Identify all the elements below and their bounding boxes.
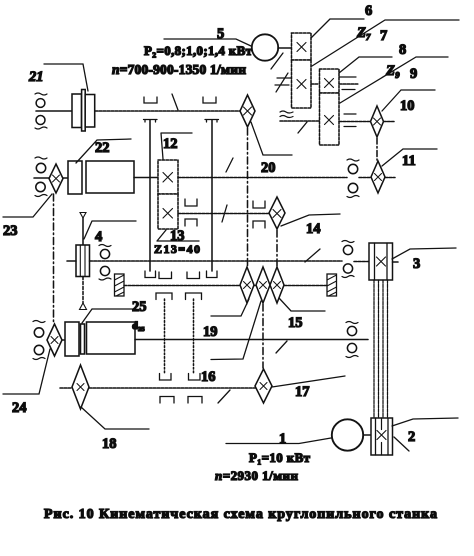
label 10 leader xyxy=(382,90,435,111)
wire right of diamond 10 xyxy=(384,121,395,123)
rail 2 vertical xyxy=(211,120,213,271)
wire intermediate shaft between blocks xyxy=(311,83,319,85)
bevel gear 18 (diamond) xyxy=(72,365,89,409)
bearing right of shaft IV xyxy=(342,241,354,278)
vertical shaft 4 top arrow xyxy=(80,213,86,219)
svg-text:2: 2 xyxy=(408,429,415,445)
svg-text:12: 12 xyxy=(163,136,178,152)
fork rod 2 bottom hook xyxy=(189,374,201,381)
bearing right of shaft VI xyxy=(346,322,358,358)
svg-text:19: 19 xyxy=(203,324,218,340)
wire shaft II near diamond 11 xyxy=(359,177,371,179)
bevel gear 10 (diamond) xyxy=(371,106,384,137)
label 23 leader xyxy=(3,194,52,217)
label 11 leader xyxy=(382,149,437,166)
vertical shaft 4 upper xyxy=(82,218,84,245)
wire shaft II left xyxy=(34,177,49,179)
svg-text:Z13=40: Z13=40 xyxy=(154,242,200,256)
label 2 leader xyxy=(392,418,458,426)
bearing left of shaft II xyxy=(35,157,47,197)
svg-text:8: 8 xyxy=(399,42,406,58)
svg-text:14: 14 xyxy=(306,221,321,237)
bevel gear 14 (diamond) xyxy=(269,197,285,229)
label 18 leader xyxy=(81,407,149,429)
svg-text:25: 25 xyxy=(132,299,147,315)
wire shaft VII left xyxy=(60,387,72,389)
wire shaft III xyxy=(178,213,269,215)
fork bracket below shaft VII b xyxy=(188,397,202,404)
gear 13 xyxy=(158,194,178,229)
label 20 leader xyxy=(251,122,292,155)
label 4 leader xyxy=(84,221,136,239)
wire output shaft right xyxy=(339,121,371,123)
rail 1 top cap xyxy=(144,120,158,123)
svg-text:11: 11 xyxy=(402,153,416,169)
wire middle diamond to bevel 17 xyxy=(262,304,264,368)
svg-text:10: 10 xyxy=(400,98,415,114)
bevel gear 11 (diamond) xyxy=(371,161,385,193)
wire diamond23 to motor22 xyxy=(63,177,68,179)
bevel gear 20 (diamond) xyxy=(240,95,255,127)
fork rod 1 xyxy=(164,299,166,374)
sliding sleeve bracket on shaft I right xyxy=(203,97,216,103)
svg-text:21: 21 xyxy=(28,69,44,85)
fork rod 1 bottom hook xyxy=(160,374,172,381)
rail 1 bottom hook xyxy=(145,271,156,278)
label 8 leader xyxy=(339,57,392,73)
bevel gear 19 (left diamond) xyxy=(240,267,254,303)
tick on shaft I xyxy=(172,94,178,110)
wire shaft VI xyxy=(135,339,368,341)
bevel gear 16 (middle diamond) xyxy=(256,267,270,303)
wire diamond 24 to motor 25 xyxy=(62,339,65,341)
svg-text:n=2930 1/мин: n=2930 1/мин xyxy=(215,468,299,483)
wire shaft II right dashed xyxy=(178,177,347,179)
label 24 leader xyxy=(3,349,50,394)
svg-text:3: 3 xyxy=(413,256,420,272)
pulley 2 xyxy=(371,418,393,455)
fork bracket below shaft VII a xyxy=(160,397,174,404)
fork rod 2 top bracket xyxy=(186,293,202,300)
sleeve bracket mid row a xyxy=(159,272,172,279)
vertical shaft 4 bottom arrow xyxy=(80,303,87,310)
label 1 leader xyxy=(226,438,331,444)
svg-text:17: 17 xyxy=(295,384,310,400)
wire shaft I dashed xyxy=(95,110,240,112)
wire intermediate shaft right stub xyxy=(339,83,358,85)
svg-text:4: 4 xyxy=(95,229,102,245)
svg-text:16: 16 xyxy=(201,369,216,385)
gear block 8/9 xyxy=(320,69,340,145)
svg-text:5: 5 xyxy=(217,26,224,42)
sleeve bracket lower right of gear 13 xyxy=(185,219,197,226)
bevel gear 15 (right diamond) xyxy=(270,267,284,303)
label 12 leader xyxy=(161,133,192,159)
fork rod 2 xyxy=(193,299,195,374)
gear 12 xyxy=(158,160,178,194)
wire bevel 23 to 24 xyxy=(53,194,55,323)
label 5 leader xyxy=(164,39,251,46)
wire motor 1 to pulley 2 xyxy=(364,434,372,436)
frame mark right of intermediate shaft xyxy=(339,77,356,90)
svg-text:18: 18 xyxy=(102,436,117,452)
svg-text:Р₂=0,8;1,0;1,4 кВт: Р₂=0,8;1,0;1,4 кВт xyxy=(144,43,253,58)
label 3 leader xyxy=(392,248,456,259)
bevel gear 23 (diamond) xyxy=(49,164,63,193)
label 25 leader xyxy=(82,309,136,323)
wire shaft IV to pulley 3 xyxy=(354,261,369,263)
label 19 leader xyxy=(211,299,249,316)
tick on shaft III xyxy=(222,205,227,222)
svg-text:20: 20 xyxy=(261,160,276,176)
svg-text:Z₉: Z₉ xyxy=(385,63,400,79)
wire shaft I left xyxy=(36,110,72,112)
frame marks right of output shaft xyxy=(344,114,356,127)
motor 22 xyxy=(68,161,134,194)
svg-text:Z₇: Z₇ xyxy=(356,25,371,41)
wire bevel 14 to cluster xyxy=(276,230,278,266)
label 22 leader xyxy=(76,139,131,163)
coupling 21 xyxy=(72,90,95,132)
svg-text:15: 15 xyxy=(288,315,303,331)
label 16 leader xyxy=(211,301,261,360)
wire shaft V xyxy=(124,285,327,287)
sleeve bracket upper right of gear 13 xyxy=(185,199,197,206)
sleeve bracket mid row b xyxy=(187,272,200,279)
frame mark left of intermediate shaft xyxy=(275,73,291,92)
bearing right of shaft II xyxy=(347,159,359,198)
frame block right xyxy=(327,274,337,296)
svg-text:Рис. 10 Кинематическая схема к: Рис. 10 Кинематическая схема круглопильн… xyxy=(44,507,437,522)
sleeve bracket lower near diamond 14 xyxy=(253,221,265,228)
tick on shaft IV xyxy=(305,249,320,262)
svg-text:9: 9 xyxy=(410,66,417,82)
svg-text:6: 6 xyxy=(365,3,372,19)
tick on output shaft xyxy=(298,122,307,133)
label 14 leader xyxy=(281,214,340,226)
tick on shaft II xyxy=(226,158,233,172)
label 21 leader xyxy=(44,64,88,91)
bevel gear 24 (diamond) xyxy=(47,324,62,356)
svg-text:d₂₅: d₂₅ xyxy=(132,320,145,332)
label 7 leader xyxy=(312,20,459,66)
wire shaft IV left xyxy=(67,260,76,262)
wire vertical bevel 10 to 11 xyxy=(376,138,378,160)
svg-text:23: 23 xyxy=(3,223,18,239)
belt lines xyxy=(374,280,388,418)
wavy marks left of output shaft xyxy=(280,111,293,118)
tick on shaft VI xyxy=(276,341,287,353)
bearing left of shaft VI xyxy=(33,321,45,360)
worm 4 xyxy=(76,245,90,277)
label 9 leader xyxy=(340,57,448,103)
wire shaft VII xyxy=(89,387,255,389)
tick below pulley 2 xyxy=(394,437,409,451)
wire shaft IV long xyxy=(90,260,343,262)
sleeve bracket upper near diamond 14 xyxy=(253,201,265,208)
wire motor 5 to gear block xyxy=(278,47,292,49)
motor 1 circle xyxy=(332,419,363,450)
gear block 6/7 xyxy=(292,33,312,108)
tick on shaft VII xyxy=(218,390,230,403)
wire bevel 20 to cluster xyxy=(247,128,249,266)
label 6 leader xyxy=(311,19,364,38)
motor M5 circle xyxy=(252,34,278,60)
svg-text:24: 24 xyxy=(12,400,27,416)
sliding sleeve bracket on shaft I left xyxy=(144,97,157,103)
vertical shaft 4 lower dashed xyxy=(82,277,84,304)
wire motor 22 to gear 12 xyxy=(134,177,158,179)
wire output shaft left xyxy=(280,120,319,122)
svg-text:Р₁=10 кВт: Р₁=10 кВт xyxy=(249,450,311,465)
frame block left xyxy=(115,274,125,296)
wire right of diamond 11 xyxy=(385,177,395,179)
fork rod 1 top bracket xyxy=(156,293,172,300)
svg-text:1: 1 xyxy=(279,431,286,447)
label 17 leader xyxy=(272,376,345,387)
label 13 leader xyxy=(157,230,199,241)
bevel gear 17 (diamond) xyxy=(255,369,272,403)
rail 1 vertical xyxy=(149,120,151,271)
bearing on shaft IV xyxy=(99,245,111,281)
svg-text:7: 7 xyxy=(380,28,387,44)
pulley 3 xyxy=(369,243,393,280)
rail 2 top cap xyxy=(205,120,219,123)
label 15 leader xyxy=(279,298,325,311)
wire right of pulley 3 xyxy=(393,261,399,263)
tick below motor 5 xyxy=(271,53,283,69)
rail 2 bottom hook xyxy=(207,271,218,278)
svg-text:22: 22 xyxy=(95,140,110,156)
svg-text:n=700-900-1350 1/мин: n=700-900-1350 1/мин xyxy=(112,62,246,77)
motor 25 xyxy=(65,322,135,356)
bearing left of shaft I xyxy=(35,93,47,129)
